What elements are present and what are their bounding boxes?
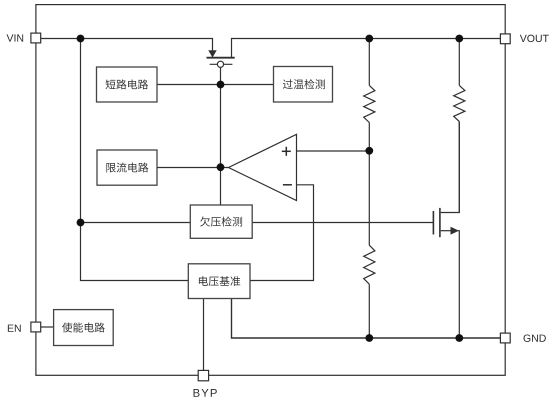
- wire Q1 drain to VOUT rail: [232, 39, 501, 58]
- wire op-amp - input to 电压基准 output: [250, 185, 314, 281]
- wire node C to 欠压检测 left input: [81, 222, 191, 224]
- wire VIN branch down left side to 电压基准 input: [81, 39, 189, 281]
- pin VIN: [7, 33, 41, 43]
- wire op-amp + input to feedback divider tap: [297, 150, 370, 152]
- wire VIN rail: VIN pin to Q1 source: [41, 39, 213, 51]
- IC boundary box: [36, 5, 505, 376]
- block 过温检测 over-temperature detection: [274, 67, 333, 103]
- junction node C: left branch / 欠压检测 input: [77, 219, 85, 227]
- wire 短路电路 output to 过温检测: [157, 84, 273, 86]
- wire node B down to 欠压检测 top: [220, 168, 222, 206]
- wire 欠压检测 output to Q2 gate: [252, 222, 433, 224]
- op-amp U1 error amplifier: [229, 134, 297, 200]
- wire node A down to node B (op-amp output): [220, 85, 222, 168]
- block 限流电路 current-limit circuit: [97, 150, 157, 185]
- wire 电压基准 to GND rail: [232, 299, 370, 339]
- transistor Q2 NMOS discharge transistor: [433, 122, 459, 338]
- pin EN: [8, 322, 41, 332]
- junction node B: 限流电路 / op-amp output: [217, 163, 225, 171]
- block 短路电路 short-circuit protection: [97, 67, 158, 102]
- pin BYP: [194, 370, 217, 396]
- block 欠压检测 under-voltage detection: [190, 205, 252, 238]
- wire GND rail to GND pin: [370, 337, 501, 339]
- junction feedback tap: R1/R2 / op-amp +: [365, 147, 373, 155]
- junction VOUT rail / R3 top: [455, 35, 463, 43]
- pin VOUT: [500, 34, 548, 44]
- wire 电压基准 to BYP pin: [203, 299, 205, 371]
- pin GND: [500, 333, 545, 343]
- junction at VIN rail / left branch: [77, 35, 85, 43]
- block 电压基准 voltage reference: [188, 264, 250, 299]
- resistor R2 (lower feedback divider): [364, 151, 375, 338]
- block 使能电路 enable circuit: [54, 310, 114, 346]
- resistor R3 (load/discharge resistor): [454, 39, 465, 213]
- resistor R1 (upper feedback divider): [364, 39, 375, 152]
- junction node A: Q1 gate / 短路电路 / 过温检测: [217, 81, 225, 89]
- wire 限流电路 output to op-amp output node: [157, 167, 229, 169]
- wire Q1 gate down to node A: [220, 67, 222, 84]
- transistor Q1 PMOS pass transistor: [207, 51, 235, 68]
- junction VOUT rail / R1 top: [365, 35, 373, 43]
- wire EN pin to 使能电路: [41, 326, 54, 328]
- junction GND rail / R2 bottom: [365, 334, 373, 342]
- junction GND rail / Q2 source: [455, 334, 463, 342]
